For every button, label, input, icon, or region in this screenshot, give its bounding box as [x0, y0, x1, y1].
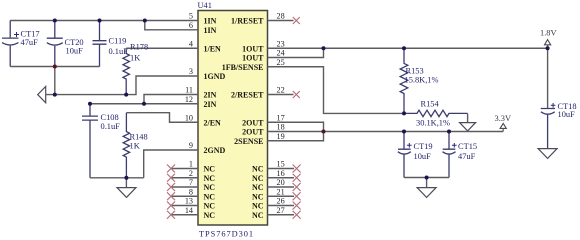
- svg-text:NC: NC: [204, 211, 216, 220]
- svg-text:10uF: 10uF: [66, 47, 84, 56]
- svg-text:2SENSE: 2SENSE: [234, 137, 263, 146]
- junction pin6 tap: [143, 19, 147, 23]
- capacitor CT17 leads: [9, 21, 11, 39]
- capacitor CT15 leads: [448, 132, 450, 150]
- wire: 3.3V node line y=131.5: [268, 131, 504, 133]
- svg-text:19: 19: [277, 132, 285, 141]
- resistor R153: [400, 48, 408, 113]
- wire: pin22 stub: [268, 94, 294, 96]
- CT18 plus sign: [551, 103, 556, 108]
- resistor R154: [404, 110, 468, 116]
- resistor R148: [123, 113, 129, 178]
- svg-text:2IN: 2IN: [204, 100, 217, 109]
- wire pin2 NC stub: [171, 177, 198, 179]
- svg-text:28: 28: [277, 12, 285, 21]
- svg-text:NC: NC: [204, 183, 216, 192]
- svg-text:2GND: 2GND: [204, 146, 226, 155]
- capacitor CT15 plates: [443, 149, 456, 154]
- NC stubs and X marks right pins 15,16,20,21,26,27: [268, 165, 301, 219]
- wire: 1.8V corner down: [547, 45, 549, 109]
- svg-text:2: 2: [189, 169, 193, 178]
- svg-text:NC: NC: [252, 165, 264, 174]
- junction R153 bottom node: [402, 111, 406, 115]
- junction CT15 top: [447, 130, 451, 134]
- svg-text:2OUT: 2OUT: [242, 118, 264, 127]
- svg-text:1/RESET: 1/RESET: [231, 17, 264, 26]
- svg-text:1IN: 1IN: [204, 17, 217, 26]
- svg-text:NC: NC: [204, 202, 216, 211]
- wire: pin6 jog: [145, 21, 198, 30]
- svg-text:3: 3: [189, 67, 193, 76]
- arrow port into 3.3V net: [460, 123, 476, 131]
- svg-text:NC: NC: [252, 183, 264, 192]
- wire: vertical x=54.8 caps-gnd: [54, 67, 56, 95]
- svg-text:1: 1: [189, 160, 193, 169]
- no-connect X pin28: [293, 17, 300, 24]
- svg-text:2OUT: 2OUT: [242, 128, 264, 137]
- svg-text:25: 25: [277, 58, 285, 67]
- wire pin15 NC stub: [268, 168, 295, 170]
- svg-text:14: 14: [185, 206, 193, 215]
- capacitor C119 leads: [99, 21, 101, 41]
- junction R153 top: [402, 46, 406, 50]
- wire: pin11 jog: [144, 95, 198, 104]
- junction pin24 tap: [322, 46, 326, 50]
- svg-text:NC: NC: [252, 202, 264, 211]
- svg-text:26: 26: [277, 197, 285, 206]
- svg-text:30.1K,1%: 30.1K,1%: [416, 118, 450, 127]
- CT17 plus sign: [14, 32, 19, 37]
- svg-text:1FB/SENSE: 1FB/SENSE: [222, 63, 264, 72]
- wire: top 1IN rail y=20.5: [10, 20, 198, 22]
- junction 3.3V node: [322, 130, 326, 134]
- wire pin21 NC stub: [268, 195, 295, 197]
- svg-text:10uF: 10uF: [558, 110, 576, 119]
- svg-text:13: 13: [185, 197, 193, 206]
- svg-text:TPS767D301: TPS767D301: [199, 230, 253, 239]
- svg-text:NC: NC: [252, 211, 264, 220]
- junction R148 bottom: [124, 176, 128, 180]
- svg-text:1/EN: 1/EN: [204, 44, 222, 53]
- wire pin27 NC stub: [268, 214, 295, 216]
- svg-text:21: 21: [277, 188, 285, 197]
- wire: pin9 2GND route: [144, 150, 198, 178]
- svg-text:R153: R153: [406, 67, 424, 76]
- svg-text:1K: 1K: [130, 54, 140, 63]
- capacitor CT18 plates: [541, 109, 555, 115]
- svg-text:8: 8: [189, 188, 193, 197]
- svg-text:10uF: 10uF: [414, 152, 432, 161]
- svg-text:12: 12: [185, 95, 193, 104]
- svg-text:NC: NC: [252, 174, 264, 183]
- svg-text:CT19: CT19: [414, 142, 433, 151]
- junction R178 bottom: [124, 93, 128, 97]
- junction CT20 top: [53, 19, 57, 23]
- no-connect X marks pins 1,2,7,8,13,14: [167, 165, 175, 219]
- junction C108 top: [88, 102, 92, 106]
- resistor R178: [123, 48, 129, 94]
- svg-text:24: 24: [277, 49, 285, 58]
- svg-text:20: 20: [277, 178, 285, 187]
- junction CT20 bottom: [53, 65, 57, 69]
- power port 3.3V arrow: [500, 123, 506, 128]
- wire: gnd stub right: [426, 178, 428, 188]
- svg-text:R148: R148: [130, 132, 148, 141]
- capacitor C119 plates: [93, 41, 107, 45]
- svg-text:11: 11: [185, 86, 193, 95]
- junction pin11 tap: [142, 102, 146, 106]
- svg-text:22: 22: [277, 86, 285, 95]
- power port 1.8V arrow: [545, 40, 551, 45]
- NC stubs and X marks left pins 1,2,7,8,13,14: [167, 165, 198, 219]
- junction C119 top: [98, 19, 102, 23]
- svg-text:2/RESET: 2/RESET: [231, 91, 264, 100]
- svg-text:5: 5: [189, 12, 193, 21]
- svg-text:2/EN: 2/EN: [204, 118, 222, 127]
- svg-text:NC: NC: [204, 174, 216, 183]
- svg-text:1OUT: 1OUT: [242, 44, 264, 53]
- wire: pin10 2/EN jog: [126, 113, 198, 123]
- wire pin20 NC stub: [268, 186, 295, 188]
- capacitor C108 plates: [82, 116, 98, 120]
- svg-text:15: 15: [277, 160, 285, 169]
- svg-text:6: 6: [189, 21, 193, 30]
- junction 1.8V corner: [546, 46, 550, 50]
- svg-text:0.1uF: 0.1uF: [109, 47, 129, 56]
- ground symbol left: [117, 188, 136, 198]
- CT15 plus sign: [452, 143, 457, 148]
- ground port arrow left: [38, 87, 46, 103]
- svg-text:18: 18: [277, 123, 285, 132]
- pin names left: [204, 17, 226, 220]
- svg-text:CT15: CT15: [458, 142, 477, 151]
- svg-text:16: 16: [277, 169, 285, 178]
- capacitor C108 leads: [89, 104, 91, 116]
- no-connect X marks pins 15,16,20,21,26,27: [293, 165, 301, 219]
- pin numbers left: [185, 12, 193, 215]
- wire: 3.3V port stub: [502, 128, 504, 131]
- wire: caps bottom rail y=66.5: [10, 66, 99, 68]
- wire: right gnd rail y=177.5: [404, 177, 449, 179]
- op-amp U41 IC body TPS767D301: [198, 11, 268, 226]
- wire pin14 NC stub: [171, 214, 198, 216]
- svg-text:10: 10: [185, 114, 193, 123]
- wire: pin12 2IN line y=103.75: [90, 103, 198, 105]
- junction CT19 top: [402, 130, 406, 134]
- capacitor CT20 plates: [47, 38, 63, 45]
- svg-text:1OUT: 1OUT: [242, 54, 264, 63]
- wire pin1 NC stub: [171, 168, 198, 170]
- capacitor CT20 leads: [54, 21, 56, 39]
- junction right gnd rail: [425, 176, 429, 180]
- svg-text:NC: NC: [204, 165, 216, 174]
- svg-text:27: 27: [277, 206, 285, 215]
- svg-text:15.8K,1%: 15.8K,1%: [405, 75, 439, 84]
- wire: 1.8V rail pin23 y=48.25: [268, 47, 548, 49]
- svg-text:9: 9: [189, 141, 193, 150]
- capacitor CT19 leads: [403, 132, 405, 150]
- wire: pin4 1/EN line y=48.25: [126, 47, 198, 49]
- ground symbol CT18: [538, 149, 557, 159]
- svg-text:17: 17: [277, 114, 285, 123]
- wire: GND line y=94.6: [46, 76, 198, 95]
- svg-text:R154: R154: [421, 100, 440, 109]
- svg-text:7: 7: [189, 178, 193, 187]
- svg-text:3.3V: 3.3V: [495, 114, 512, 123]
- svg-text:U41: U41: [198, 1, 212, 10]
- svg-text:R178: R178: [130, 42, 148, 51]
- svg-text:1K: 1K: [130, 141, 140, 150]
- svg-text:NC: NC: [252, 192, 264, 201]
- svg-text:1IN: 1IN: [204, 26, 217, 35]
- wire: pin25 1FB/SENSE route: [268, 67, 405, 114]
- svg-text:NC: NC: [204, 192, 216, 201]
- wire: R154 down lead: [467, 113, 469, 122]
- wire pin13 NC stub: [171, 205, 198, 207]
- svg-text:4: 4: [189, 40, 193, 49]
- capacitor CT18 bottom lead: [547, 115, 549, 149]
- wire pin7 NC stub: [171, 186, 198, 188]
- svg-text:1GND: 1GND: [204, 72, 226, 81]
- svg-text:C108: C108: [101, 113, 119, 122]
- wire: gnd stub left: [125, 178, 127, 188]
- wire: pin24 jog: [268, 48, 324, 57]
- wire pin26 NC stub: [268, 205, 295, 207]
- svg-text:0.1uF: 0.1uF: [101, 122, 121, 131]
- svg-text:1.8V: 1.8V: [540, 29, 557, 38]
- svg-text:23: 23: [277, 40, 285, 49]
- no-connect X pin22: [293, 91, 300, 98]
- wire: pin17 jog: [268, 122, 324, 141]
- capacitor CT19 plates: [398, 149, 411, 154]
- CT19 plus sign: [407, 143, 412, 148]
- svg-text:47uF: 47uF: [458, 152, 476, 161]
- ground symbol right: [417, 188, 436, 198]
- pin numbers right: [277, 12, 285, 215]
- wire: pin28 stub: [268, 20, 294, 22]
- wire: left gnd rail y=177.8: [90, 177, 144, 179]
- svg-text:47uF: 47uF: [21, 38, 39, 47]
- wire pin8 NC stub: [171, 195, 198, 197]
- svg-text:2IN: 2IN: [204, 91, 217, 100]
- capacitor CT17 plates: [2, 38, 18, 45]
- junction gnd drop: [53, 93, 57, 97]
- svg-text:C119: C119: [109, 37, 127, 46]
- pin names right: [222, 17, 264, 220]
- wire pin16 NC stub: [268, 177, 295, 179]
